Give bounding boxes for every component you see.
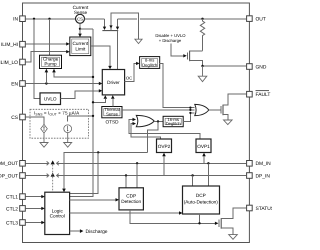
transistor discharge FET [188, 51, 203, 66]
wire thermal sense to driver bottom [112, 99, 114, 107]
wire logic to DCP input [70, 212, 180, 214]
pin EN [11, 81, 25, 88]
svg-text:ILIM_HI: ILIM_HI [1, 42, 18, 48]
svg-text:Detection: Detection [121, 199, 141, 204]
pin DP_OUT [0, 173, 25, 180]
node DP to DCP [191, 174, 193, 176]
node DM to DCP [207, 162, 209, 164]
outer IC boundary box [23, 3, 250, 243]
wire GND rail [203, 65, 247, 67]
svg-text:DM_OUT: DM_OUT [0, 161, 18, 167]
pin FAULT (active low, overbar) [247, 91, 271, 98]
resistor discharge pulldown [200, 19, 204, 51]
svg-text:FAULT: FAULT [256, 92, 271, 98]
wire OVP2 input from DP line [163, 156, 165, 176]
svg-text:DP_OUT: DP_OUT [0, 173, 18, 179]
svg-text:CTL1: CTL1 [6, 195, 18, 201]
svg-text:GND: GND [256, 64, 267, 70]
block CDP detection [119, 188, 143, 210]
wire CTL3 into logic [25, 222, 42, 224]
node IN branch x49.5 [48, 18, 50, 20]
block logic control [45, 192, 70, 234]
svg-text:OC: OC [126, 76, 132, 81]
wire CTL2 into logic [25, 207, 42, 209]
wire CDP output down to status line [130, 210, 215, 223]
svg-text:Discharge: Discharge [86, 229, 108, 235]
wire DCP output down to status line [199, 214, 201, 223]
wire OC driver to 8ms deglitch [125, 63, 137, 81]
pin CTL2 [6, 206, 25, 213]
wire OVP1 output to gate input 1 [129, 120, 200, 140]
pin ILIM_HI [1, 41, 25, 48]
node bus tap to logic output riser [97, 151, 99, 153]
node DM to CDP [136, 162, 138, 164]
svg-text:(Auto-Detection): (Auto-Detection) [184, 200, 219, 205]
wire disable signal to discharge FET gate [171, 44, 184, 56]
wire UVLO output to driver [61, 91, 100, 99]
wire ILIM_LO to current limit [25, 52, 67, 62]
wire DM tap down to DCP [207, 163, 209, 186]
svg-text:Disable + UVLO: Disable + UVLO [155, 33, 186, 38]
node OR gate input dots [189, 107, 191, 109]
block thermal sense [102, 107, 122, 118]
svg-text:Deglitch: Deglitch [142, 62, 158, 67]
wire OVP1 input from DM line [203, 156, 205, 164]
node status line junction [198, 222, 200, 224]
wire IN down-feed to UVLO [34, 19, 40, 99]
ground below discharge FET [198, 66, 207, 82]
wire logic discharge output [70, 230, 80, 232]
svg-text:OUT: OUT [256, 17, 266, 23]
svg-text:ILIM_LO: ILIM_LO [0, 60, 18, 66]
gate OVP OR [136, 115, 154, 126]
dashed switch control from logic [52, 165, 54, 192]
wire OR output to FAULT FET gate [209, 109, 221, 111]
svg-text:UVLO: UVLO [44, 97, 57, 102]
switch DP [47, 173, 59, 178]
wire branch to charge pump bottom [54, 72, 93, 77]
wire branch to driver bottom input [93, 99, 105, 102]
wire branch to ISNS current source [68, 116, 93, 122]
svg-text:Sense: Sense [74, 10, 88, 15]
node EN branch to charge pump [45, 82, 47, 84]
node GND junction [201, 65, 203, 67]
pin CTL1 [6, 194, 25, 201]
svg-text:Limit: Limit [75, 46, 86, 51]
wire ILIM_HI to current limit [25, 43, 67, 45]
pin DM_IN [247, 161, 272, 168]
wire pass FET gate to driver [117, 31, 119, 70]
wire IN down-feed to charge pump top [49, 19, 51, 55]
dashed current-sense box [30, 109, 89, 138]
wire EN line to driver [25, 83, 99, 85]
ground below diamond source [40, 133, 48, 147]
transistor pass FET [102, 13, 138, 39]
svg-text:CS: CS [11, 115, 19, 121]
node IN branch x34 [33, 18, 35, 20]
block driver [102, 70, 124, 95]
wire OUT rail [118, 18, 247, 20]
svg-text:DCP: DCP [196, 193, 206, 198]
pin CS [11, 114, 25, 121]
block 16-ms deglitch [163, 116, 183, 126]
pin GND [247, 64, 267, 71]
arrow into logic control top [62, 189, 66, 193]
wire DP line [25, 175, 246, 177]
svg-text:Pump: Pump [44, 62, 57, 67]
wire IN rail to current-sense circle [25, 18, 75, 20]
wire DM line [25, 162, 246, 164]
wire ISNS rail x93 (to logic control) [70, 29, 93, 197]
node DP to CDP [125, 174, 127, 176]
current source ISNS (circle) [64, 125, 72, 133]
wire OVP2 output to gate input 2 [131, 124, 161, 139]
svg-text:DP_IN: DP_IN [256, 173, 271, 179]
gate fault OR [195, 104, 209, 115]
svg-text:+ Discharge: + Discharge [159, 38, 182, 43]
block current limit [70, 37, 91, 56]
svg-text:IN: IN [13, 17, 18, 23]
wire CS circle output down to current limit [79, 23, 81, 36]
wire logic feedback bus [64, 152, 147, 188]
wire DP tap down to CDP [125, 176, 127, 188]
pin DM_OUT [0, 161, 25, 168]
svg-text:OVP2: OVP2 [158, 144, 171, 149]
block 8-ms deglitch [140, 57, 160, 69]
wire riser bus to logic out [70, 152, 99, 193]
transistor FAULT open-drain FET [221, 94, 247, 120]
wire feedback to logic bus [147, 122, 158, 153]
ground below STATUS FET [229, 235, 238, 240]
pin ILIM_LO [0, 59, 25, 66]
ground below FAULT FET [224, 120, 233, 125]
pin CTL3 [6, 220, 25, 227]
node deglitch feedback tap [157, 120, 159, 122]
current-sense circle CS [73, 5, 89, 23]
svg-text:CTL2: CTL2 [6, 206, 18, 212]
wire CS sense branch to x93 rail [80, 28, 93, 30]
block OVP1 [196, 139, 211, 153]
wire DM tap down to CDP [136, 163, 138, 188]
svg-text:OVP1: OVP1 [197, 144, 210, 149]
wire thermal sense output to fault OR gate [122, 109, 195, 111]
svg-text:STATUS: STATUS [256, 206, 273, 212]
svg-text:EN: EN [11, 81, 18, 87]
block OVP2 [157, 139, 172, 153]
wire CS circle to pass FET drain [85, 18, 105, 20]
node OUT discharge branch [201, 18, 203, 20]
svg-text:Deglitch: Deglitch [166, 121, 182, 126]
svg-text:CS: CS [77, 16, 83, 21]
switch DM [47, 160, 59, 165]
svg-text:CTL3: CTL3 [6, 220, 18, 226]
wire DP tap down to DCP [192, 176, 194, 187]
wire logic to CDP input [70, 199, 117, 201]
pin STATUS [247, 205, 275, 212]
current source dependent (diamond) [41, 124, 48, 133]
wire CS pin to dependent source [25, 117, 44, 124]
pin DP_IN [247, 173, 271, 180]
block UVLO [40, 93, 61, 105]
transistor STATUS open-drain FET [219, 208, 246, 235]
wire current limit output to driver top [91, 46, 110, 66]
svg-text:CDP: CDP [126, 193, 136, 198]
wire OVP gate output to 16ms deglitch [154, 121, 163, 123]
wire 16ms deglitch output to fault OR gate [183, 113, 195, 122]
svg-text:Driver: Driver [107, 80, 120, 85]
block charge pump [40, 55, 62, 68]
pin OUT [247, 16, 266, 23]
svg-text:DM_IN: DM_IN [256, 161, 272, 167]
pin IN [13, 16, 25, 23]
svg-text:Sense: Sense [106, 112, 119, 117]
ground below circle source [64, 133, 72, 148]
svg-text:OTSD: OTSD [105, 120, 119, 125]
wire 8ms deglitch output to fault OR gate [160, 63, 195, 107]
svg-text:Control: Control [50, 214, 65, 219]
wire EN branch up to charge pump [45, 72, 47, 84]
pass FET body arrow (back-gate) [135, 39, 142, 43]
wire CTL1 into logic [25, 196, 42, 198]
block DCP auto-detection [183, 186, 220, 214]
